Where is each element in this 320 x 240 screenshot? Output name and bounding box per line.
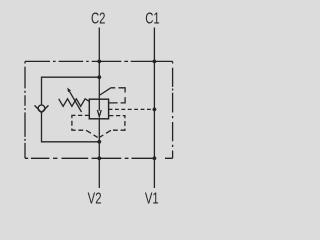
port label C2: [91, 10, 105, 27]
relief valve flow arrow shaft: [98, 99, 100, 110]
junction dot: envelope bottom / V2 line: [97, 156, 101, 160]
svg-text:V1: V1: [145, 190, 159, 207]
check valve branch wire (upper): [42, 77, 100, 105]
pilot dashed top loop: [109, 88, 126, 103]
junction dot: envelope top / C2 line: [97, 60, 101, 64]
check valve seat: [35, 105, 49, 112]
drain dashed loop right: [99, 116, 125, 138]
relief valve flow arrowhead: [97, 110, 101, 117]
port label V1: [145, 190, 159, 207]
envelope bottom edge (dash-dot): [25, 157, 173, 159]
svg-text:C1: C1: [145, 10, 159, 27]
junction dot: pilot line / C1 line: [153, 108, 157, 112]
port label C1: [145, 10, 159, 27]
pilot line from port C1 (dashed): [109, 108, 155, 110]
junction dot: check branch upper node: [97, 75, 101, 79]
pilot tap diagonal (solid): [100, 88, 110, 95]
wire C1-V1 line (right column): [153, 28, 155, 189]
drain dashed loop left: [72, 115, 98, 137]
spring (adjustable): [59, 99, 90, 107]
port label V2: [88, 190, 102, 207]
junction dot: envelope top / C1 line: [153, 60, 157, 64]
envelope left edge (dash-dot): [24, 61, 26, 158]
wire C2 to valve (left column top): [98, 28, 100, 100]
spring adjustment arrowhead: [67, 88, 71, 93]
svg-text:V2: V2: [88, 190, 102, 207]
svg-text:C2: C2: [91, 10, 105, 27]
junction dot: envelope bottom / V1 line: [153, 156, 157, 160]
relief valve U1 box: [89, 99, 108, 119]
envelope top edge (dash-dot): [25, 60, 173, 62]
junction dot: check branch lower node: [97, 140, 101, 144]
envelope right edge (dash-dot): [172, 61, 174, 158]
check valve branch wire (lower): [42, 113, 100, 142]
check valve ball: [38, 105, 45, 112]
spring adjustment arrow shaft: [70, 91, 82, 112]
wire valve to V2 (left column bottom): [98, 119, 100, 188]
